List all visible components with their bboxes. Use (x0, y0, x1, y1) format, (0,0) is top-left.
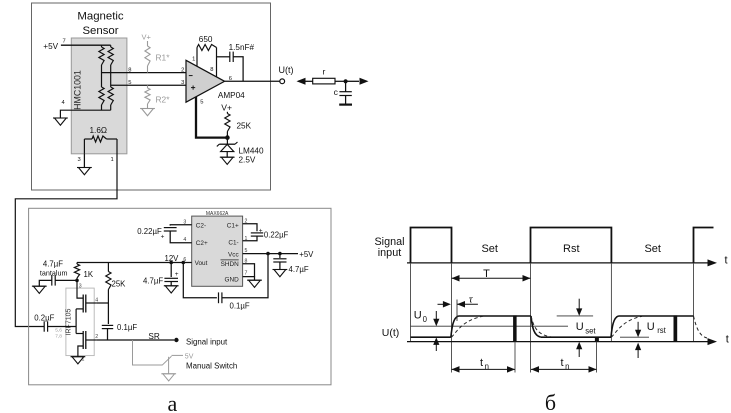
svg-text:Vcc: Vcc (228, 251, 239, 258)
svg-text:LM440: LM440 (239, 147, 264, 156)
svg-text:SR: SR (148, 332, 159, 341)
thick tick at end of tn2 (595, 337, 599, 342)
ground at strap pin 3 (83, 154, 85, 168)
svg-text:U: U (414, 310, 422, 322)
svg-text:+5V: +5V (299, 250, 314, 259)
right arrow of line model (346, 80, 359, 82)
svg-text:t: t (480, 357, 483, 369)
svg-text:+5V: +5V (43, 42, 58, 51)
waveform low segment 2 (541, 336, 611, 338)
wire Vcc to +5V (243, 253, 298, 255)
svg-text:HMC1001: HMC1001 (73, 70, 83, 110)
svg-text:4.7µF: 4.7µF (289, 265, 309, 274)
arrow Uset upper (578, 299, 580, 314)
wire GND to ground (243, 277, 255, 281)
svg-text:r: r (323, 67, 326, 77)
svg-text:25K: 25K (112, 280, 127, 289)
svg-text:5: 5 (128, 80, 131, 86)
capacitor 0.22uF at C2 pins (170, 224, 192, 227)
svg-text:3: 3 (78, 157, 81, 163)
gate line of mosfet pair (75, 309, 77, 334)
output wire pin 6 (225, 80, 280, 82)
signal pulse train (411, 228, 452, 263)
svg-text:2: 2 (95, 334, 98, 340)
low reference for Urst (620, 336, 649, 338)
terminal dot signal input (174, 338, 178, 342)
gray switch ground branch (168, 357, 170, 374)
gray manual switch lever (162, 356, 172, 365)
svg-text:GND: GND (224, 276, 239, 283)
thick bar end of set 2 (674, 315, 678, 341)
svg-text:0.2µF: 0.2µF (34, 313, 54, 322)
chip MAX662A body (192, 216, 243, 286)
bridge resistor left-bottom (99, 87, 104, 105)
junction dot at pin 5 node (225, 135, 230, 140)
reference line U0 (411, 325, 569, 327)
svg-text:б: б (545, 390, 556, 413)
svg-text:а: а (168, 391, 178, 413)
capacitor 4.7uF tantalum (55, 279, 77, 281)
junction dot on Vcc wire (278, 252, 282, 256)
resistor 25K bias (226, 112, 228, 114)
capacitor 4.7uF at 12V (170, 263, 172, 278)
svg-text:set: set (585, 326, 596, 335)
resistor 25K pulse (107, 263, 109, 272)
tau tick (456, 300, 458, 322)
svg-text:Signal input: Signal input (186, 337, 228, 346)
gray resistor R2* (147, 85, 149, 88)
op-amp minus sign (189, 75, 193, 77)
guide line at first fall (451, 263, 453, 373)
ground under Vcc capacitor (273, 269, 288, 271)
ground under 12V capacitor (164, 285, 179, 287)
enclosure box of sensor/amplifier circuit (32, 3, 271, 190)
strap pin 3 lead (83, 139, 85, 154)
thick bar end of set pulse (513, 315, 517, 341)
arrow Urst upper (637, 322, 639, 335)
bridge left column wire (101, 65, 103, 87)
ground under Q2 (71, 356, 86, 358)
svg-text:V+: V+ (221, 103, 232, 113)
op-amp plus sign (191, 87, 195, 89)
bridge resistor right-bottom (108, 87, 113, 105)
svg-text:0.22µF: 0.22µF (264, 231, 289, 240)
wire Q1 drain to 25K node (96, 302, 108, 304)
op-amp AMP04 triangle (186, 60, 225, 102)
sensor block HMC1001 body (71, 38, 127, 154)
gray manual switch wire (133, 340, 163, 365)
svg-text:Vout: Vout (195, 260, 208, 267)
arrow U0 lower (435, 340, 437, 352)
waveform high 2 (619, 315, 694, 317)
junction dot at Vcc 0.1uF (266, 252, 270, 256)
svg-text:C2-: C2- (196, 222, 206, 229)
svg-text:650: 650 (199, 35, 213, 44)
guide line at last rise (693, 263, 695, 342)
bridge resistor left-top (101, 45, 103, 47)
svg-text:4.7µF: 4.7µF (43, 259, 63, 268)
capacitor c ground stub (345, 96, 347, 105)
svg-text:n: n (485, 362, 489, 371)
svg-text:1: 1 (192, 57, 195, 63)
svg-text:C1-: C1- (228, 239, 238, 246)
arrow Urst lower (637, 345, 639, 358)
high reference for Uset (557, 315, 593, 317)
wire SR signal (96, 339, 174, 341)
waveform initial low segment (411, 336, 451, 338)
ground under tantalum (32, 285, 47, 287)
guide line at Rst rise (530, 263, 532, 373)
svg-text:Magnetic: Magnetic (77, 10, 124, 22)
feedback capacitor 1.5nF (217, 56, 230, 58)
wire SHDN to ground rail (243, 264, 255, 277)
transistor Q2 lower mosfet (76, 333, 83, 335)
svg-text:n: n (565, 362, 569, 371)
svg-text:0: 0 (423, 315, 428, 324)
tau arrow right side (457, 303, 478, 305)
svg-text:C1+: C1+ (227, 222, 239, 229)
svg-text:t: t (561, 357, 564, 369)
waveform rise 2 solid (611, 316, 619, 337)
svg-text:C2+: C2+ (196, 240, 208, 247)
svg-text:5,6: 5,6 (55, 328, 62, 334)
shunt capacitor c (345, 81, 347, 91)
svg-text:+: + (259, 227, 263, 234)
wire Vout 12V rail (77, 262, 192, 264)
svg-text:7,8: 7,8 (55, 334, 62, 340)
svg-text:Rst: Rst (563, 243, 580, 255)
capacitor 0.1uF pulse (107, 303, 109, 324)
svg-text:T: T (483, 268, 490, 280)
svg-text:R2*: R2* (156, 95, 171, 105)
capacitor 0.2uF gate (43, 321, 45, 331)
resistor 1K (76, 263, 78, 265)
svg-text:IRF7105: IRF7105 (65, 308, 72, 335)
capacitor 0.1uF chip bypass (183, 263, 217, 298)
gray resistor R1* (147, 41, 149, 46)
output terminal circle (280, 79, 285, 84)
svg-text:7: 7 (63, 38, 66, 44)
svg-text:5: 5 (245, 248, 248, 254)
svg-text:tantalum: tantalum (40, 268, 68, 277)
svg-text:8: 8 (210, 67, 213, 73)
waveform rise 1 dashed (452, 316, 484, 337)
svg-text:Manual Switch: Manual Switch (186, 362, 237, 371)
svg-text:1: 1 (111, 157, 114, 163)
svg-text:U(t): U(t) (279, 65, 294, 75)
transistor pair outline box (66, 288, 94, 356)
waveform fall 1 solid (531, 316, 541, 337)
capacitor 0.22uF at C1 pins (243, 224, 257, 231)
bridge resistor right-top (110, 45, 112, 47)
svg-text:SHDN: SHDN (221, 261, 239, 268)
capacitor 4.7uF at Vcc (279, 254, 281, 258)
svg-text:+: + (161, 234, 165, 241)
feedback resistor 650 (196, 48, 198, 67)
ground under GND pin (247, 279, 262, 281)
waveform fall 1 dashed (531, 316, 555, 338)
svg-text:3: 3 (79, 283, 82, 289)
zener reference LM440 (226, 138, 228, 145)
arrow U0 upper (435, 311, 437, 324)
ground under zener (220, 156, 235, 158)
guide below tick (596, 342, 598, 373)
waveform high 1 (459, 315, 532, 317)
thick wire op-amp pin 5 to reference node (196, 97, 227, 138)
svg-text:1.5nF#: 1.5nF# (229, 43, 255, 52)
svg-text:0.1µF: 0.1µF (117, 323, 137, 332)
dimension tn first (452, 368, 516, 370)
junction dot of rc node (344, 79, 348, 83)
svg-text:Set: Set (481, 243, 498, 255)
svg-text:rst: rst (657, 326, 666, 335)
svg-text:2.5V: 2.5V (239, 156, 256, 165)
enclosure box of set/reset pulse circuit (29, 208, 331, 384)
pin 5 output wire to op-amp (111, 84, 186, 86)
guide line at first rise (410, 263, 412, 342)
svg-text:25K: 25K (237, 122, 252, 131)
strap pin 1 wire down and across to pulse circuit (15, 139, 117, 327)
svg-text:U: U (647, 321, 655, 333)
tau arrow left side (438, 303, 450, 305)
svg-text:R1*: R1* (156, 53, 171, 63)
svg-text:1.6Ω: 1.6Ω (90, 126, 108, 135)
svg-text:4.7µF: 4.7µF (143, 277, 163, 286)
transistor Q1 upper mosfet (77, 280, 83, 298)
bridge right column wire (110, 65, 112, 87)
wire +5V to bridge top (61, 44, 111, 46)
svg-text:0.22µF: 0.22µF (137, 227, 162, 236)
svg-text:0.1µF: 0.1µF (230, 302, 250, 311)
svg-text:t: t (725, 255, 728, 267)
guide below first bar (514, 342, 516, 373)
junction dot 0.1uF branch (182, 261, 186, 265)
bridge bottom wire to pin 4 (60, 110, 110, 118)
svg-text:8: 8 (128, 67, 131, 73)
svg-text:c: c (334, 87, 339, 97)
svg-text:+: + (175, 271, 179, 278)
left double arrow of line model (298, 80, 308, 82)
pin 8 output wire to op-amp (102, 72, 187, 74)
svg-text:U(t): U(t) (382, 327, 400, 339)
waveform rise 2 dashed (611, 316, 642, 337)
svg-text:7: 7 (245, 270, 248, 276)
svg-text:2: 2 (181, 67, 184, 73)
svg-text:Set: Set (644, 243, 661, 255)
lower time axis (407, 341, 710, 343)
junction dot 12V capacitor (169, 261, 173, 265)
waveform rise 1 solid (451, 316, 459, 337)
gray ground under switch (161, 373, 176, 375)
svg-text:MAX662A: MAX662A (206, 211, 229, 217)
svg-text:3: 3 (181, 80, 184, 86)
set/reset strap resistor 1.6ohm (84, 138, 92, 140)
svg-text:V+: V+ (142, 33, 152, 42)
junction dot 1K bottom (75, 279, 79, 283)
arrow Uset lower (578, 344, 580, 357)
ground at sensor pin 4 (53, 117, 68, 119)
svg-text:t: t (726, 334, 729, 346)
gray ground under R2* (140, 108, 155, 110)
svg-text:5: 5 (200, 99, 203, 105)
svg-text:1K: 1K (84, 270, 94, 279)
svg-text:4: 4 (62, 100, 66, 106)
svg-text:AMP04: AMP04 (218, 91, 245, 100)
svg-text:5V: 5V (185, 353, 194, 360)
guide line at Rst fall (610, 263, 612, 342)
svg-text:U: U (576, 321, 584, 333)
waveform fall 2 dashed (694, 316, 708, 338)
dimension T (452, 277, 531, 279)
series resistance r box (308, 80, 313, 82)
svg-text:Sensor: Sensor (82, 25, 118, 37)
upper time axis (407, 262, 710, 264)
dimension tn second (531, 368, 597, 370)
svg-text:input: input (378, 247, 401, 259)
